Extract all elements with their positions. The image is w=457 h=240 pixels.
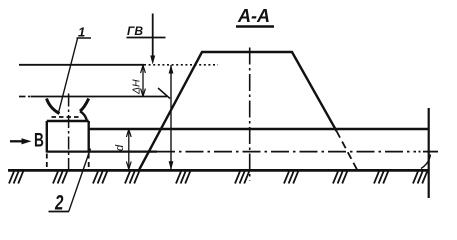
dimension dH bbox=[131, 65, 146, 97]
svg-text:d: d bbox=[114, 144, 126, 151]
svg-text:А-А: А-А bbox=[237, 6, 270, 26]
svg-text:ΔН: ΔН bbox=[131, 79, 143, 95]
riser axis bbox=[68, 94, 70, 171]
dam centerline bbox=[249, 48, 251, 181]
right end cut bar bbox=[421, 108, 431, 198]
level end tick on slope bbox=[158, 88, 170, 99]
pipe axis (dash-dot) bbox=[157, 151, 416, 153]
headwater line (dotted part) bbox=[144, 64, 218, 66]
section title A-A bbox=[236, 6, 274, 27]
headwater line (solid part) bbox=[19, 64, 144, 66]
svg-text:2: 2 bbox=[54, 190, 63, 214]
ground line bbox=[8, 169, 428, 172]
pipe invert (solid part) bbox=[47, 151, 157, 153]
svg-text:ГВ: ГВ bbox=[127, 24, 143, 38]
right slope hidden part (dashed) bbox=[337, 131, 358, 170]
pipe crown line bbox=[89, 128, 429, 131]
dam embankment outline bbox=[139, 52, 337, 170]
dimension H (head above ground) bbox=[169, 65, 174, 170]
tailwater / drawdown level line bbox=[19, 96, 167, 98]
riser shaft (element 2) bbox=[47, 121, 89, 170]
flow direction arrow B bbox=[10, 129, 44, 151]
label 2 with leader bbox=[49, 149, 91, 215]
label 1 with leader bbox=[59, 25, 91, 112]
bell mouth funnel (element 1) bbox=[47, 99, 89, 121]
ground hatching bbox=[9, 171, 427, 183]
dimension d bbox=[114, 129, 131, 170]
svg-text:В: В bbox=[34, 129, 44, 151]
headwater level label GV with arrow bbox=[127, 14, 166, 65]
